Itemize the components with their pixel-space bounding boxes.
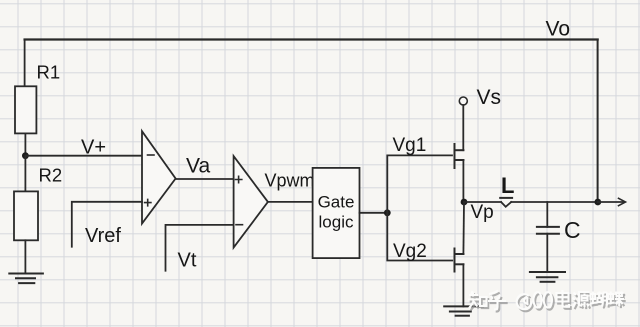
svg-text:Vpwm: Vpwm	[265, 171, 315, 191]
U1 non-inverting input plus sign	[145, 199, 151, 205]
svg-text:R2: R2	[39, 165, 63, 186]
svg-text:Vg2: Vg2	[393, 241, 427, 262]
watermark	[468, 290, 626, 312]
node junction dot V+	[22, 152, 29, 159]
op-amp U2 PWM comparator	[234, 156, 268, 248]
wire gate logic output	[360, 212, 388, 214]
wire Vp to Q2 drain	[462, 202, 465, 254]
wire V+ horizontal to op-amp	[25, 155, 142, 157]
transistor Q1 high-side MOSFET	[455, 144, 464, 168]
svg-text:Vt: Vt	[178, 250, 197, 272]
svg-text:L: L	[501, 173, 514, 198]
resistor R2	[14, 191, 38, 240]
svg-text:Gate: Gate	[318, 193, 355, 212]
svg-text:Vp: Vp	[471, 202, 494, 223]
svg-text:Vs: Vs	[477, 86, 502, 109]
ground below capacitor	[530, 272, 565, 282]
wire Q1 source to node Vp	[462, 160, 464, 202]
terminal Vs circle	[459, 97, 467, 105]
transistor Q2 low-side MOSFET	[455, 249, 464, 272]
svg-text:Va: Va	[186, 155, 210, 178]
wire inductor to output node	[511, 201, 598, 203]
op-amp U1 error amplifier	[142, 131, 176, 223]
svg-text:Vref: Vref	[85, 225, 121, 247]
wire top-left down to R1	[24, 40, 26, 87]
wire Va from U1 to U2	[176, 178, 234, 180]
node junction dot Vp	[461, 199, 468, 206]
wire capacitor to ground	[546, 234, 548, 272]
wire Vg2 to Q2 gate	[387, 213, 452, 261]
wire R2 to ground	[24, 240, 26, 273]
resistor R1	[15, 86, 36, 133]
wire output to capacitor C	[546, 202, 548, 227]
U1 inverting input minus sign	[148, 154, 155, 156]
svg-text:R1: R1	[37, 62, 61, 83]
wire Vt input	[166, 225, 234, 271]
inductor L core bar	[500, 197, 512, 199]
svg-text:Vg1: Vg1	[393, 135, 427, 156]
svg-text:logic: logic	[319, 213, 354, 232]
U2 non-inverting input plus sign	[236, 176, 242, 182]
wire node to R2	[24, 156, 26, 192]
U2 inverting input minus sign	[236, 224, 243, 226]
node junction dot output	[594, 199, 601, 206]
wire output arrow	[598, 201, 625, 203]
wire Q2 source to ground	[462, 264, 464, 306]
ground below Q2	[444, 306, 483, 315]
wire Vg1 to Q1 gate	[387, 155, 452, 212]
svg-text:C: C	[564, 217, 581, 243]
wire Vo top horizontal	[25, 38, 598, 40]
gate logic block U3	[313, 168, 360, 258]
wire Vp to inductor	[464, 201, 501, 203]
svg-text:Vo: Vo	[546, 18, 571, 41]
capacitor C plates	[537, 227, 559, 234]
wire Vref input	[72, 202, 142, 247]
ground below R2	[9, 274, 43, 284]
wire Vpwm from U2 to gate logic	[268, 201, 313, 203]
wire R1 to node V+	[24, 133, 26, 155]
wire Vs to Q1 drain	[462, 105, 464, 150]
wire Vo right vertical down to output node	[597, 40, 599, 203]
inductor L notch	[501, 202, 511, 207]
node junction dot gate drive	[384, 209, 391, 216]
svg-text:V+: V+	[81, 137, 106, 159]
